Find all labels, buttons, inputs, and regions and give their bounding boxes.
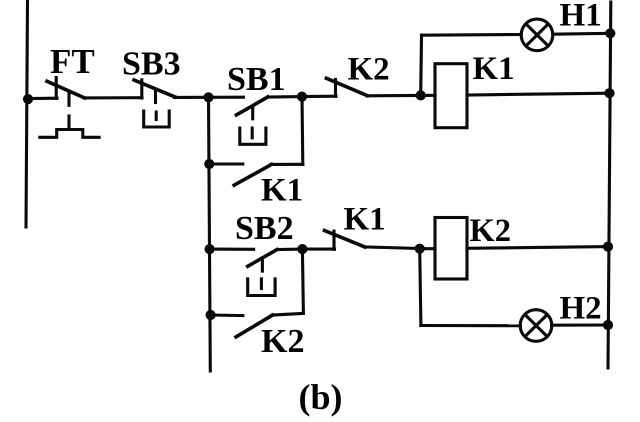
wire: node F to coil K2: [420, 247, 435, 250]
wire: node B to K2 interlock: [302, 95, 336, 99]
node: junction H2 / right bus: [603, 320, 613, 330]
svg-text:H1: H1: [560, 0, 602, 34]
svg-text:SB1: SB1: [227, 61, 286, 98]
pushbutton SB1 (NO): [236, 97, 267, 119]
wire: mid rail to K1 self-hold contact: [209, 162, 243, 165]
svg-text:K1: K1: [473, 51, 515, 87]
wire: K1 self-hold to right rail: [271, 163, 303, 166]
pushbutton SB2 (NO): [248, 250, 277, 272]
thermal relay contact FT (NC): [47, 78, 85, 99]
left supply bus: [26, 0, 28, 227]
wire: node A to SB1: [209, 96, 244, 99]
wire: node E to K1 interlock: [302, 248, 334, 251]
svg-text:SB3: SB3: [122, 46, 181, 83]
node: junction coil K1 / right bus: [604, 88, 614, 98]
wire: lamp H1 to right bus: [553, 32, 611, 36]
svg-text:K2: K2: [470, 213, 512, 249]
node: junction H1 / right bus: [605, 28, 615, 38]
SB3 plunger dashed link: [154, 91, 157, 103]
wire: lamp H2 to right bus: [552, 323, 608, 326]
wire: node C up to H1 branch: [419, 35, 423, 95]
node: junction mid rail / K1 self-hold: [204, 159, 214, 169]
wire: H1 branch horizontal to lamp: [422, 33, 522, 37]
mid vertical rail: [209, 97, 211, 371]
wire: H2 branch horizontal to lamp: [421, 324, 521, 327]
relay contact K2 interlock (NC): [326, 78, 367, 96]
svg-text:SB2: SB2: [235, 210, 294, 247]
SB3 button cap: [144, 111, 170, 127]
wire: coil K1 to right bus: [467, 93, 610, 95]
wire: node F down to H2 branch: [420, 249, 421, 326]
wire: SB2 to node E: [277, 248, 302, 252]
wire: mid rail to K2 self-hold contact: [211, 313, 243, 317]
right supply bus: [608, 2, 611, 368]
node F: junction rung2 / H2 branch: [415, 244, 425, 254]
relay contact K1 interlock (NC): [325, 231, 365, 250]
wire: node D to SB2: [210, 248, 254, 251]
pushbutton SB3 (NC): [134, 80, 175, 98]
svg-text:K1: K1: [261, 173, 303, 209]
SB2 button cap: [248, 279, 275, 296]
wire: coil K2 to right bus: [467, 247, 608, 249]
right rail of SB1 parallel branch: [300, 97, 304, 165]
svg-text:K1: K1: [344, 202, 386, 238]
node C: junction rung1 / H1 branch: [416, 90, 426, 100]
wire: left bus to FT: [28, 97, 57, 101]
svg-text:H2: H2: [560, 291, 602, 327]
FT actuator dashed link: [67, 93, 70, 129]
lamp H1: [521, 19, 553, 51]
node E: junction rung2 / SB2 parallel right rail: [297, 244, 307, 254]
svg-text:K2: K2: [261, 323, 304, 360]
right rail of SB2 parallel branch: [302, 249, 303, 313]
svg-text:(b): (b): [299, 377, 343, 417]
node: junction left bus / rung 1: [23, 94, 33, 104]
node B: junction rung1 / SB1 parallel right rail: [297, 92, 307, 102]
relay contact K1 self-hold (NO): [234, 164, 271, 185]
FT heater element: [40, 130, 99, 138]
svg-text:FT: FT: [50, 42, 95, 81]
wire: SB3 to node A: [175, 96, 209, 99]
wire: FT to SB3: [84, 96, 142, 99]
node: junction mid rail / K2 self-hold: [206, 310, 216, 320]
relay contact K2 self-hold (NO): [236, 315, 273, 337]
SB1 button cap: [240, 128, 266, 144]
relay coil K1: [435, 64, 467, 128]
svg-text:K2: K2: [348, 51, 390, 87]
lamp H2: [520, 310, 552, 342]
node: junction coil K2 / right bus: [603, 242, 613, 252]
node A: junction rung1 / mid rail: [203, 92, 213, 102]
wire: SB1 to node B: [268, 95, 302, 99]
node D: junction mid rail / rung 2: [205, 244, 215, 254]
wire: K2 self-hold to right rail: [272, 313, 303, 315]
wire: K2 interlock to node C: [367, 94, 421, 98]
relay coil K2: [435, 218, 467, 280]
wire: K1 interlock to node F: [365, 247, 420, 249]
wire: node C to coil K1: [421, 94, 435, 97]
